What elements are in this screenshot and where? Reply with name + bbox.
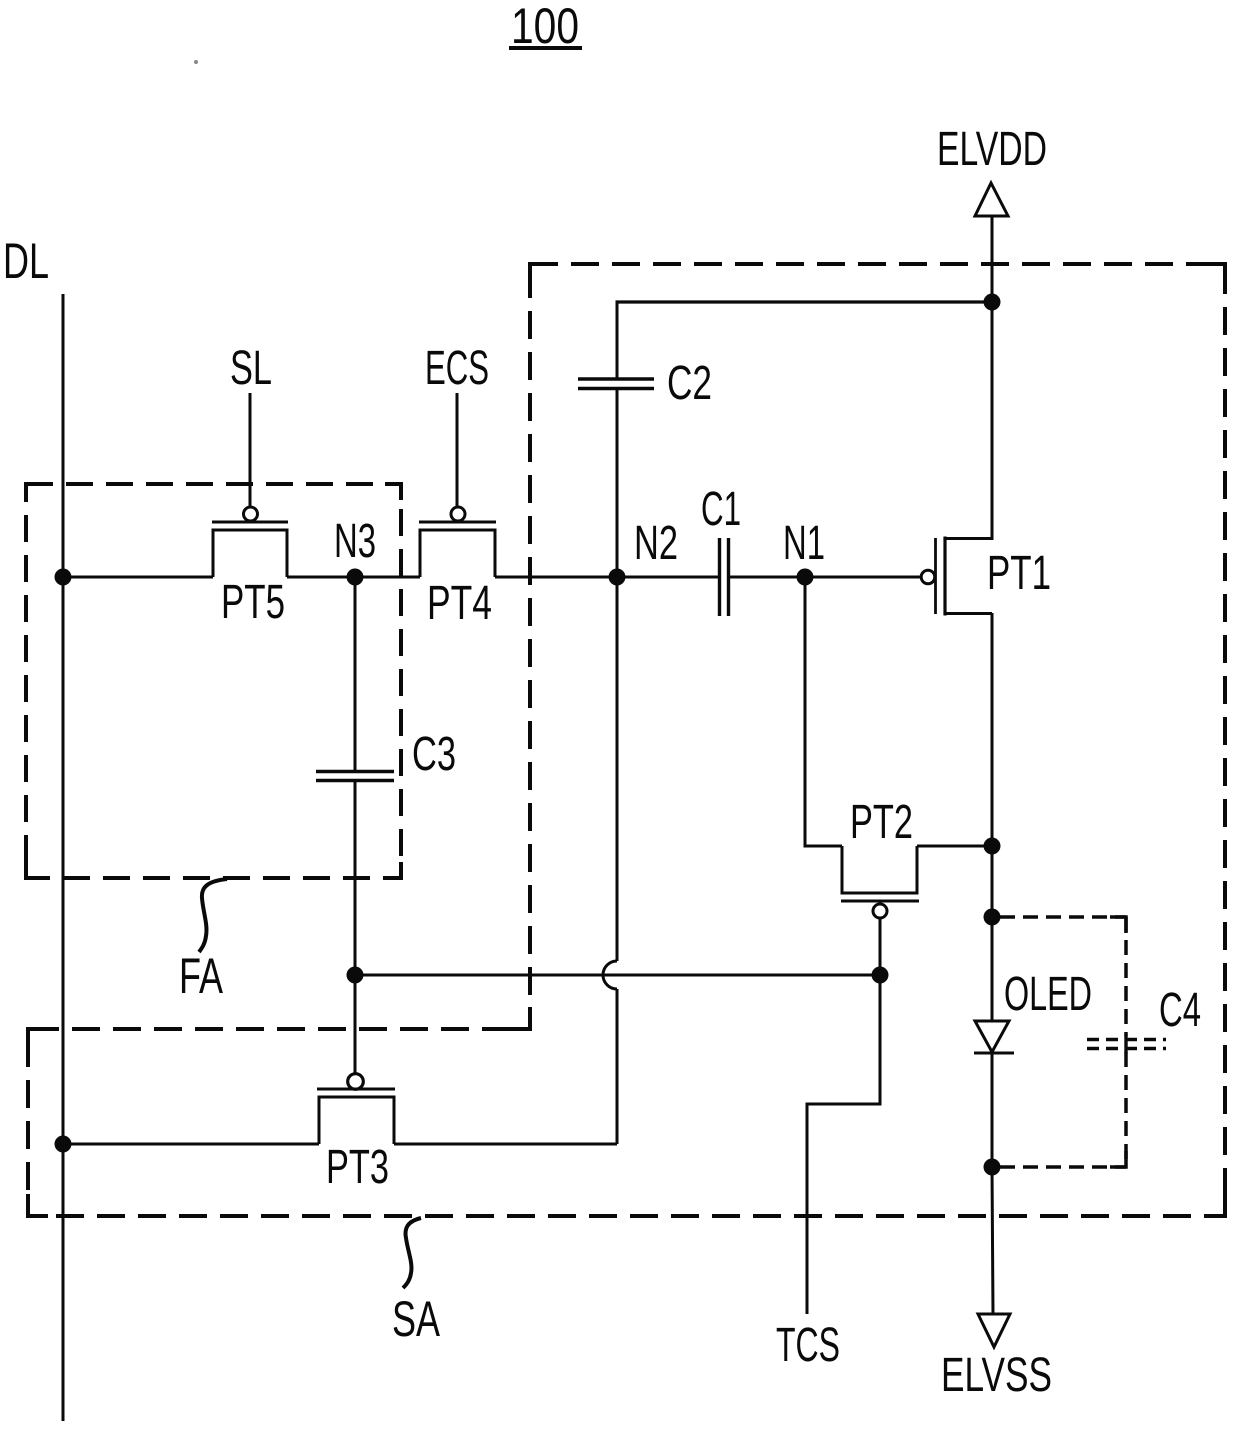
junction dot PT2 drain — [984, 838, 1001, 855]
squiggle FA leader — [199, 879, 227, 952]
power ELVDD symbol — [975, 183, 1008, 540]
wire TCS branch — [807, 975, 880, 1314]
svg-text:TCS: TCS — [776, 1319, 840, 1372]
wire PT2 drain to rail — [917, 845, 992, 848]
svg-text:SA: SA — [392, 1291, 440, 1347]
transistor PT5 — [212, 507, 288, 577]
box C4 dashed outline — [1000, 917, 1126, 1167]
svg-text:C2: C2 — [667, 357, 712, 410]
svg-text:100: 100 — [511, 0, 579, 54]
wire ECS gate lead — [456, 393, 459, 507]
junction dot N3 — [347, 569, 364, 586]
junction dot C3 bottom node — [347, 967, 364, 984]
junction dot DL row2 — [55, 1136, 72, 1153]
junction dot N2 — [609, 569, 626, 586]
capacitor C2 — [578, 302, 654, 577]
junction dot C4 bottom — [984, 1159, 1001, 1176]
svg-text:PT2: PT2 — [850, 796, 913, 849]
wire DL vertical data line — [62, 294, 65, 1421]
svg-text:ECS: ECS — [425, 342, 489, 395]
wire ELVSS lead — [992, 1167, 993, 1314]
wire OLED branch — [991, 846, 994, 1021]
title 100 — [509, 0, 582, 54]
box FA corner pieces — [26, 484, 401, 878]
svg-text:FA: FA — [179, 948, 223, 1004]
capacitor C3 — [316, 577, 394, 975]
transistor PT4 — [419, 507, 496, 577]
svg-text:ELVSS: ELVSS — [941, 1349, 1052, 1402]
box SA corner pieces — [28, 264, 1225, 1216]
svg-text:PT4: PT4 — [427, 577, 492, 630]
svg-text:C3: C3 — [412, 728, 456, 781]
stray speck — [194, 60, 198, 64]
svg-text:N3: N3 — [334, 515, 376, 568]
transistor PT3 — [317, 975, 395, 1144]
power ELVSS symbol — [978, 1314, 1010, 1347]
wire PT1 drain down — [991, 613, 994, 846]
wire SL gate lead — [249, 393, 252, 507]
wire PT2 gate lead — [879, 918, 882, 975]
capacitor C1 — [720, 538, 729, 616]
junction dot DL row1 — [55, 569, 72, 586]
diode OLED — [974, 1021, 1014, 1167]
svg-text:DL: DL — [3, 233, 49, 289]
junction dot gate node — [872, 967, 889, 984]
svg-text:PT5: PT5 — [221, 576, 285, 629]
svg-text:SL: SL — [230, 342, 272, 395]
wire N1 to PT2 source — [805, 577, 842, 846]
junction dot ELVDD rail — [984, 294, 1001, 311]
svg-text:C1: C1 — [701, 483, 741, 536]
junction dot C4 top — [984, 909, 1001, 926]
transistor PT2 — [841, 846, 919, 918]
wire PT3 row y=1144 — [63, 1143, 617, 1146]
squiggle SA leader — [403, 1218, 421, 1288]
wire top rail y=301 — [616, 300, 993, 303]
box FA dashed — [26, 484, 401, 878]
capacitor C4 dashed — [1087, 1040, 1166, 1049]
svg-text:N2: N2 — [634, 517, 678, 570]
svg-text:PT3: PT3 — [326, 1141, 389, 1194]
svg-text:ELVDD: ELVDD — [937, 123, 1047, 176]
svg-text:PT1: PT1 — [987, 547, 1051, 600]
transistor PT1 — [921, 537, 992, 616]
box SA dashed — [28, 264, 1225, 1216]
svg-text:N1: N1 — [783, 517, 825, 570]
wire N2 branch down with hop — [603, 577, 617, 1144]
wire feedback row y=975 — [355, 974, 880, 977]
svg-text:OLED: OLED — [1004, 968, 1092, 1021]
junction dot N1 — [797, 569, 814, 586]
svg-text:C4: C4 — [1159, 984, 1201, 1037]
wire main row y=577 — [63, 576, 922, 579]
